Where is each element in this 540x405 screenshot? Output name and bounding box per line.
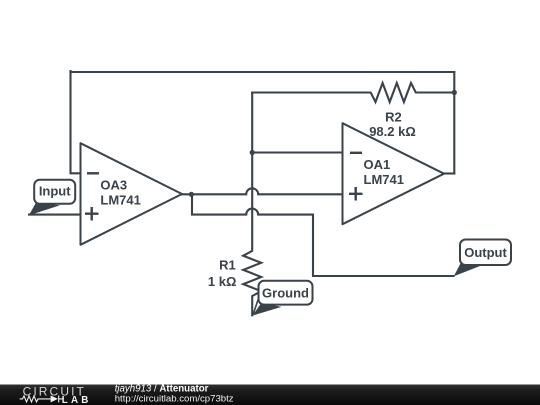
- wire OA1 output stub: [444, 172, 454, 174]
- op-amp OA3: [81, 143, 183, 245]
- junction at OA1 output / R2 node: [452, 90, 457, 95]
- resistor R2 with leads: [252, 83, 454, 102]
- wire right vertical (OA1 output node): [453, 72, 455, 174]
- junction at OA1 inverting input / R2 / R1 node: [250, 150, 255, 155]
- junction at OA3 output: [189, 192, 194, 197]
- svg-text:Ground: Ground: [262, 286, 309, 301]
- svg-text:http://circuitlab.com/cp73btz: http://circuitlab.com/cp73btz: [115, 393, 234, 404]
- op-amp OA1: [343, 123, 445, 224]
- svg-text:LAB: LAB: [62, 395, 92, 405]
- svg-text:R2: R2: [385, 109, 402, 124]
- svg-text:R1: R1: [219, 258, 236, 273]
- wire top feedback (OA3 inverting input to OA1 output node): [71, 71, 455, 73]
- svg-text:98.2 kΩ: 98.2 kΩ: [369, 124, 416, 139]
- wire middle vertical with resistor R1: [243, 93, 261, 316]
- svg-text:Input: Input: [39, 183, 71, 198]
- wire OA3 output to Output flag (with hop): [192, 194, 454, 276]
- footer title text: [115, 383, 234, 404]
- svg-text:Output: Output: [464, 245, 507, 260]
- svg-text:OA3: OA3: [100, 177, 127, 192]
- label R2 value: [369, 109, 416, 139]
- ground flag node: [253, 281, 313, 316]
- wire OA1 inverting input: [252, 151, 342, 153]
- label R1 value: [208, 258, 237, 289]
- footer bar: [0, 385, 540, 405]
- CircuitLab logo: [20, 385, 92, 405]
- svg-text:1 kΩ: 1 kΩ: [208, 274, 237, 289]
- wire OA3 output to OA1 non-inverting input (with hop): [182, 188, 343, 194]
- wire Input flag to OA3 non-inverting input: [29, 214, 81, 216]
- wire left vertical into OA3 inverting input: [71, 71, 81, 173]
- node Input flag: [29, 180, 75, 216]
- svg-text:LM741: LM741: [100, 192, 140, 207]
- node Output flag: [454, 240, 511, 277]
- svg-text:LM741: LM741: [364, 172, 404, 187]
- svg-text:OA1: OA1: [364, 157, 391, 172]
